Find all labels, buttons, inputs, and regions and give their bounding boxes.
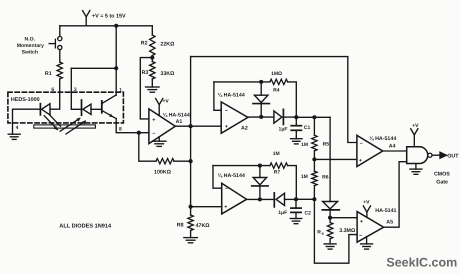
node A2 out clamp	[259, 115, 263, 119]
OUT arrow	[432, 152, 459, 159]
svg-text:+: +	[225, 124, 228, 130]
pin 8 label	[119, 127, 122, 133]
wire +V rail down to pin 1	[115, 26, 117, 95]
resistor R8 47K	[177, 207, 211, 231]
svg-text:+: +	[152, 117, 155, 123]
svg-text:Gate: Gate	[436, 180, 448, 186]
wire A2 out	[248, 116, 274, 118]
node C1 top	[294, 115, 298, 119]
svg-text:1μF: 1μF	[278, 210, 287, 216]
wire A3 out	[247, 198, 275, 200]
svg-text:SeekIC.com: SeekIC.com	[386, 256, 457, 270]
note all diodes	[59, 224, 112, 230]
node R6 bottom	[312, 197, 316, 201]
svg-text:R2: R2	[141, 41, 148, 47]
wire A1 out	[175, 125, 221, 127]
photodiode D2	[82, 100, 92, 115]
reflective surface	[34, 125, 96, 128]
wire A1 feedback drop	[139, 133, 156, 162]
pin 1 label	[119, 87, 122, 93]
svg-text:100KΩ: 100KΩ	[154, 170, 172, 176]
svg-text:¼ HA-5144: ¼ HA-5144	[163, 112, 190, 118]
svg-text:A2: A2	[241, 126, 248, 132]
wire A3- feedback corner	[213, 166, 222, 189]
wire A2 feedback rail	[214, 81, 270, 83]
svg-text:R: R	[317, 229, 321, 235]
phototransistor Q1	[91, 95, 116, 119]
resistor R6 1M	[301, 171, 329, 185]
svg-text:+V: +V	[412, 123, 419, 129]
svg-text:22KΩ: 22KΩ	[160, 42, 175, 48]
svg-text:N.O.: N.O.	[25, 37, 36, 43]
ground HEDS pin 4	[8, 134, 20, 139]
svg-text:A1: A1	[176, 119, 183, 125]
ground C2	[290, 219, 302, 224]
svg-text:−: −	[359, 234, 362, 240]
light ray incident	[44, 115, 60, 130]
svg-text:¼ HA-5144: ¼ HA-5144	[218, 173, 245, 179]
diode D6 series A3	[274, 193, 296, 207]
diode D3 clamp A2	[253, 82, 270, 117]
svg-text:HA-5141: HA-5141	[375, 208, 396, 214]
wire A3 feedback rail	[213, 165, 270, 167]
ground R9	[324, 244, 336, 249]
svg-text:3: 3	[74, 87, 77, 93]
ground C1	[291, 139, 303, 144]
ground R3	[146, 87, 160, 92]
node A1 inverting	[137, 131, 141, 135]
light ray reflected	[60, 118, 86, 134]
wire A2- feedback corner	[214, 82, 221, 110]
capacitor C1 1uF	[279, 117, 311, 138]
svg-text:4: 4	[16, 125, 19, 131]
svg-text:¼ HA-5144: ¼ HA-5144	[369, 136, 396, 142]
svg-text:47KΩ: 47KΩ	[196, 223, 211, 229]
svg-text:1μF: 1μF	[279, 126, 288, 132]
node A5+ threshold	[328, 216, 332, 220]
wire summing to A4+	[314, 158, 357, 160]
svg-text:−: −	[225, 186, 228, 192]
svg-text:Switch: Switch	[22, 49, 38, 55]
svg-text:OUT: OUT	[447, 153, 459, 159]
svg-text:3.3MΩ: 3.3MΩ	[339, 228, 356, 234]
svg-text:6: 6	[51, 87, 54, 93]
resistor R3 33K	[142, 62, 176, 80]
CMOS gate U1	[407, 147, 451, 186]
wire R7 to C2 node	[288, 166, 297, 200]
node summing R5/R6	[312, 151, 316, 171]
svg-text:R6: R6	[322, 174, 329, 180]
svg-text:1M: 1M	[273, 151, 280, 157]
wire to A3+	[191, 206, 222, 208]
node R5 tap	[312, 115, 316, 119]
node divider	[150, 56, 154, 60]
svg-text:+: +	[360, 219, 363, 225]
op-amp A5 HA-5141	[357, 208, 396, 242]
svg-text:1M: 1M	[301, 142, 308, 148]
svg-text:R8: R8	[177, 222, 184, 228]
svg-text:C2: C2	[305, 210, 312, 216]
wire A5 out to gate	[384, 162, 407, 228]
svg-text:+: +	[224, 205, 227, 211]
svg-text:−: −	[225, 109, 228, 115]
op-amp A3 1/4 HA-5144	[218, 173, 247, 214]
svg-text:C1: C1	[304, 125, 311, 131]
A5 +V arrow	[363, 200, 370, 218]
wire switch to R1	[59, 50, 61, 62]
svg-text:R3: R3	[142, 70, 149, 76]
pin 6 label	[51, 87, 54, 93]
N.O. momentary switch S1	[17, 26, 62, 56]
svg-text:¼ HA-5144: ¼ HA-5144	[218, 92, 245, 98]
node feedback/output	[189, 159, 193, 163]
svg-text:R5: R5	[323, 141, 330, 147]
wire +V rail	[60, 25, 153, 27]
pin 4 label	[16, 125, 19, 131]
svg-text:+V = 5 to 15V: +V = 5 to 15V	[92, 13, 126, 19]
wire R3 to ground	[151, 79, 153, 87]
wire C1 node to diode column	[296, 116, 330, 118]
svg-text:R4: R4	[273, 88, 280, 94]
capacitor C2 1uF	[278, 199, 311, 218]
watermark	[386, 256, 457, 270]
svg-text:R1: R1	[45, 71, 52, 77]
svg-text:33KΩ: 33KΩ	[160, 71, 175, 77]
wire R2 to R3	[151, 56, 153, 62]
wire R6 to C2 node	[313, 186, 315, 200]
node R8/A3+	[189, 205, 193, 209]
svg-text:1MΩ: 1MΩ	[271, 71, 282, 77]
svg-text:HEDS-1000: HEDS-1000	[11, 97, 40, 103]
svg-text:ALL DIODES 1N914: ALL DIODES 1N914	[59, 224, 112, 230]
svg-text:−: −	[360, 141, 363, 147]
svg-text:1: 1	[119, 87, 122, 93]
resistor R5 1M	[301, 117, 329, 151]
svg-text:−: −	[152, 131, 155, 137]
LED D1 emitter	[40, 104, 50, 115]
node rail-pin1	[114, 24, 118, 28]
wire threshold to A5+	[330, 217, 357, 219]
wire 100K to output bus	[174, 160, 191, 162]
power +V arrow	[83, 11, 126, 26]
pin 3 label	[74, 87, 77, 93]
svg-text:CMOS: CMOS	[434, 171, 450, 177]
node A3 clamp top	[258, 164, 262, 168]
wire C2 node to R6	[296, 198, 314, 200]
node pin3/pin1	[114, 66, 118, 70]
A5 ground	[361, 237, 373, 249]
gate +V arrow	[411, 123, 419, 147]
svg-text:8: 8	[119, 127, 122, 133]
svg-text:A4: A4	[389, 143, 396, 149]
ground R8	[184, 238, 198, 243]
wire pin3 to pin1 riser	[71, 67, 116, 69]
resistor R7 1M	[270, 151, 288, 176]
wire R4 to C1 node	[288, 82, 297, 117]
svg-text:R7: R7	[274, 170, 281, 176]
op-amp A4 1/4 HA-5144	[357, 135, 396, 166]
resistor R1	[45, 62, 62, 79]
svg-text:+V: +V	[363, 200, 370, 206]
wire R8 to ground	[190, 231, 192, 238]
wire A1 out bus vertical	[190, 57, 192, 207]
wire A4 out	[383, 150, 407, 152]
wire divider tap to A1+	[140, 58, 152, 119]
node C2 top	[294, 197, 298, 201]
svg-text:+: +	[359, 158, 362, 164]
diode D7 threshold	[322, 202, 339, 218]
wire LED cathode to pin 4 ground	[13, 109, 41, 134]
diode D5 clamp A3	[252, 166, 268, 200]
resistor 100K feedback	[154, 159, 174, 176]
op-amp A2 1/4 HA-5144	[218, 92, 248, 133]
svg-text:1M: 1M	[301, 174, 308, 180]
A1 ground	[152, 137, 166, 147]
wire R9 to ground	[329, 239, 331, 244]
wire rail to R2	[151, 26, 153, 35]
node A2 clamp top	[259, 80, 263, 84]
wire C1 node down to D7	[329, 117, 331, 201]
wire photodiode cathode to pin 3	[71, 68, 81, 109]
gate ground	[410, 164, 422, 175]
node A3 out clamp	[258, 197, 262, 201]
A1 +V arrow	[156, 98, 170, 115]
resistor R4 1M	[270, 71, 288, 93]
wire A1 out to A4- (top run)	[191, 57, 357, 143]
wire emitter pin 8 to A1-	[116, 119, 149, 133]
svg-text:9: 9	[322, 232, 324, 236]
svg-text:+V: +V	[163, 98, 170, 104]
op-amp A1 1/4 HA-5144	[149, 109, 190, 144]
resistor R9 3.3M	[317, 218, 356, 239]
wire R1 to pin 6	[50, 79, 60, 109]
resistor R2 22K	[141, 35, 175, 56]
wire C2 node to A5-	[314, 199, 357, 263]
svg-text:Momentary: Momentary	[17, 43, 44, 49]
HEDS-1000 module box	[8, 92, 124, 123]
diode D4 series A2	[274, 109, 296, 124]
node A1 out	[189, 124, 193, 128]
svg-text:A5: A5	[386, 219, 393, 225]
